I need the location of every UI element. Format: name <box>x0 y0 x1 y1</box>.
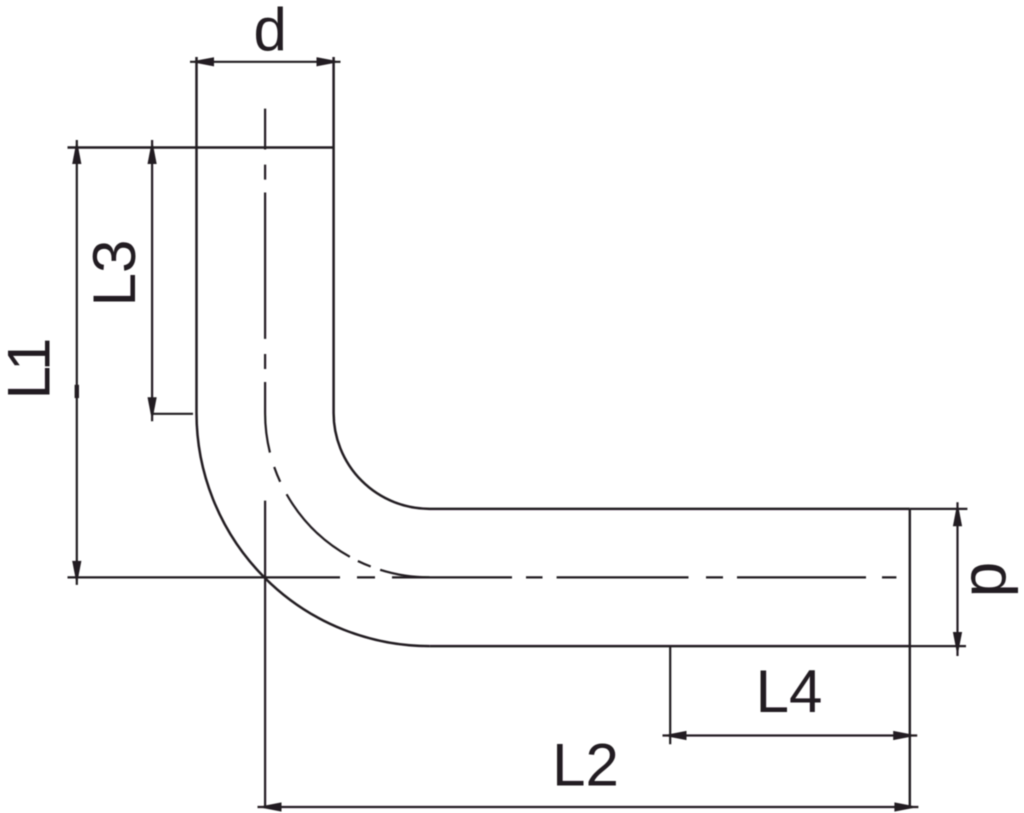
node bend centerline dashed arc <box>265 382 429 577</box>
wire L3 bottom tick <box>152 413 193 415</box>
arrow L1 bottom <box>72 561 81 585</box>
dimension line L1 <box>76 140 78 585</box>
arrow L2 left <box>258 802 282 811</box>
dimension line L2 <box>258 806 919 808</box>
svg-text:d: d <box>254 0 287 63</box>
node horizontal centerline dash-dot with L1 extension <box>68 576 897 578</box>
wire tube top end line extended left <box>68 146 334 149</box>
arrow d-top right <box>317 57 341 66</box>
dimension line L4 <box>663 734 918 736</box>
dimension line d right <box>956 502 958 656</box>
svg-text:d: d <box>958 562 1024 598</box>
arrow d-right bottom <box>953 632 962 656</box>
wire bottom wall extension right <box>910 645 966 647</box>
arrow d-right top <box>953 502 962 526</box>
wire tube right end cap extended down to L2 dimension <box>909 509 911 807</box>
node L1 line thick dash artifact <box>75 385 79 398</box>
arrow L3 bottom <box>148 397 157 421</box>
wire L4 left extension line <box>669 646 671 744</box>
svg-text:L3: L3 <box>81 240 148 307</box>
arrow L3 top <box>148 140 157 164</box>
wire bottom wall of horizontal tube <box>430 645 910 648</box>
svg-text:L1: L1 <box>0 340 63 399</box>
wire top wall extension right <box>910 508 968 510</box>
arrow L1 top <box>72 140 81 164</box>
wire inner bend arc <box>334 413 430 509</box>
arrow L4 left <box>663 731 687 740</box>
svg-text:L2: L2 <box>552 732 619 799</box>
arrow L2 right <box>894 802 918 811</box>
arrow L4 right <box>893 731 917 740</box>
dimension line L3 <box>151 140 153 421</box>
svg-text:L4: L4 <box>756 658 823 725</box>
dimension line d top <box>190 61 341 63</box>
wire right inner wall of vertical tube with extension up <box>332 57 335 413</box>
wire left outer wall of vertical tube with extension up <box>195 57 198 413</box>
wire L2 left extension line (centerline extended down) <box>264 501 266 807</box>
arrow d-top left <box>190 57 214 66</box>
node vertical centerline dash-dot <box>264 109 266 369</box>
wire top wall of horizontal tube <box>430 508 910 511</box>
wire outer bend arc <box>197 413 430 646</box>
